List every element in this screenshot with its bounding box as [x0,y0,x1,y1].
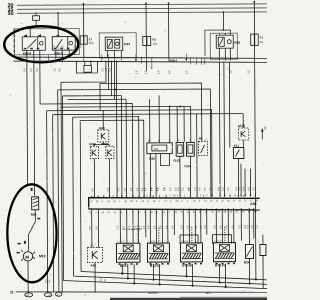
svg-text:A100: A100 [238,124,246,128]
svg-text:0.5: 0.5 [238,225,241,229]
svg-text:1.0: 1.0 [157,70,160,74]
svg-text:br: br [104,279,107,281]
component top pin numbers [92,138,208,176]
dashed boundary left of relays [13,29,15,55]
module A100 [238,128,248,140]
svg-text:0.5: 0.5 [255,224,258,228]
ignition coil B72-I [116,243,140,268]
drops bar to nest x101.5 [100,83,202,142]
wire H6 to Y104 [190,106,192,142]
svg-text:0.5: 0.5 [107,187,110,191]
svg-text:0.5: 0.5 [163,187,166,191]
relay K94 outer box [99,33,136,58]
svg-text:0.5: 0.5 [116,225,119,229]
svg-text:0.5: 0.5 [188,187,191,191]
left vertical wire x40.5 from nest [58,90,59,292]
wire R60 to switch [34,210,36,222]
right small box wire [262,234,264,244]
svg-text:0.5: 0.5 [23,68,26,72]
svg-text:0.5: 0.5 [227,187,230,191]
svg-text:1.0: 1.0 [247,69,250,73]
svg-text:0.5: 0.5 [169,187,172,191]
relay group outer box [14,29,79,55]
nest horizontal H10 [80,119,143,121]
svg-text:1.0: 1.0 [53,68,56,72]
terminal 30 arrow right edge [261,126,268,139]
nest horizontal H5 [40,102,132,105]
nest horizontal H6 with taps [61,105,191,108]
left drop relay K95-I pin2 [61,50,63,57]
svg-text:0.5: 0.5 [238,187,241,191]
sensor B24 [244,245,254,265]
svg-text:0.5: 0.5 [165,225,168,229]
svg-text:H: H [234,194,236,197]
relay K94 [105,37,130,51]
under-bar loop box [76,61,97,73]
svg-text:0.5: 0.5 [231,225,234,229]
long vertical x138 [138,116,140,197]
svg-text:0.5: 0.5 [200,225,203,229]
svg-text:0.5: 0.5 [108,67,111,71]
rotated wire labels above X28 [52,44,82,48]
shield dashes B72-IV [224,227,226,242]
connector bar X28-I bottom line [13,60,268,64]
svg-text:K11: K11 [234,144,240,148]
sensor A198 [90,146,98,158]
svg-text:1 4 3 2: 1 4 3 2 [148,241,156,243]
svg-text:R: R [149,195,151,198]
svg-text:0.5: 0.5 [89,225,92,229]
sensor A198 wire to ECU [93,159,95,198]
svg-text:1.0: 1.0 [36,68,39,72]
svg-text:0.5: 0.5 [144,187,147,191]
module A93 [87,247,102,262]
svg-text:0.5: 0.5 [222,187,225,191]
left drop relay K95-II pin1 [26,50,29,185]
svg-text:0.5: 0.5 [95,225,98,229]
bottom bus L2 [73,116,270,286]
sensor A18 bottom tee [94,142,103,146]
left vertical wire x64.5 from nest [63,95,270,290]
svg-text:R60: R60 [31,213,37,217]
ground bus 31 [15,290,270,293]
svg-text:0.5: 0.5 [251,224,254,228]
relay K46 outer box [205,30,231,56]
svg-text:0.5: 0.5 [30,68,33,72]
svg-text:0.5: 0.5 [209,187,212,191]
rotated wire labels below ECU [89,224,259,229]
svg-text:2.5: 2.5 [135,70,138,74]
ECU pin number row below bar [89,210,257,214]
relay K94 drops to bar [106,50,108,57]
A93 ground wire [94,262,96,292]
left drop relay K95-I pin1 [55,50,57,57]
svg-text:B24: B24 [244,260,250,264]
connector bar X28-I top line [13,56,268,60]
wire motor to ground [27,261,29,294]
left drop relay K95-II pin3 stub [39,50,41,104]
svg-text:0.5: 0.5 [186,225,189,229]
ECU pin letter row above bar [91,194,257,198]
svg-text:Y103: Y103 [173,159,180,163]
relay K46 top pins [218,33,220,35]
long vertical x120.8 [120,96,123,198]
sensor A18 [98,130,109,142]
svg-text:1.0: 1.0 [185,70,188,74]
bus 15 wire [17,8,268,9]
B24 wire to ECU [248,208,250,244]
svg-text:1 4 3 2: 1 4 3 2 [117,241,125,243]
sensor B400 wire to ECU [108,159,110,198]
relay K46 drops to bar [218,48,220,58]
fuse F8 [143,36,158,45]
X28 junction dots [135,59,187,61]
svg-text:A95: A95 [250,202,256,206]
coil pin numbers [90,241,222,248]
ECU connector bar A95 top line [89,197,260,209]
rotated wire labels below X28 [23,66,250,74]
ellipse highlight lower left [7,184,57,282]
drop bar long x116 [115,61,117,104]
tick rows and tiny labels [27,54,231,70]
valve Y103 [173,142,184,162]
ECU below-bar wire A93 pin2 [97,209,99,247]
wire F8 to X28 bar [145,46,147,58]
svg-text:S6: S6 [199,136,203,140]
svg-text:50: 50 [8,11,14,17]
bottom taps from coils [152,264,226,289]
svg-text:0.5: 0.5 [91,187,94,191]
svg-text:0.5: 0.5 [198,187,201,191]
left drop relay K95-I pin3 stub [68,50,70,57]
svg-text:EPC: EPC [206,291,212,295]
svg-text:0.5: 0.5 [219,225,222,229]
sensor B400 [106,146,114,158]
svg-text:A93: A93 [91,263,97,267]
relay K46 [216,35,240,48]
svg-text:1.5: 1.5 [79,44,82,48]
svg-text:1.0: 1.0 [124,187,127,191]
svg-text:0.5: 0.5 [157,187,160,191]
wire bus 30 to fuse F9 [253,2,255,34]
valve Y104 [146,60,250,197]
long vertical x125.5 [125,99,128,197]
svg-text:0.5: 0.5 [171,225,174,229]
svg-text:X28-I: X28-I [169,59,177,63]
svg-text:0.5: 0.5 [147,225,150,229]
coil bottom pin numbers [119,263,236,265]
shield dashes B72-I [123,228,141,230]
svg-text:B72-I: B72-I [120,264,128,268]
ECU connector bar A95 bottom line [89,208,260,211]
svg-text:0.5: 0.5 [175,187,178,191]
ignition coil B72-III [180,243,202,268]
svg-text:0.5: 0.5 [204,225,207,229]
wire connector to relay K95-II [30,20,36,37]
svg-text:0.5: 0.5 [204,187,207,191]
relay K95-II pin numbers [24,35,41,49]
svg-text:30: 30 [263,126,267,130]
svg-text:A18: A18 [99,126,105,130]
shield dashes B72-II [158,227,160,242]
svg-text:1.5: 1.5 [52,45,55,49]
scan artifact bottom edge [110,298,267,300]
switch S6 [198,141,207,155]
switch in ellipse [29,222,36,234]
svg-text:5A: 5A [260,40,264,44]
A100 to K11 wire [242,140,244,147]
svg-text:M: M [25,255,29,260]
right small box [260,244,266,255]
ignition coil B72-II [147,243,169,268]
svg-text:0.5: 0.5 [150,187,153,191]
svg-text:M: M [244,194,246,197]
svg-text:0.5: 0.5 [248,186,251,190]
ground labels [26,294,60,297]
wire H6 to Y103 [176,106,178,142]
svg-text:0.5: 0.5 [58,68,61,72]
long vertical x143 [143,120,145,197]
wire F9 down right side [255,46,256,280]
nest horizontal H8 [53,114,243,115]
X28 ticks [27,54,231,70]
bottom bus L1 [80,119,269,281]
drops bar to nest x108 [107,61,109,90]
relay K11 [233,147,244,158]
svg-text:1.5: 1.5 [61,45,64,49]
R60 top pin label [31,188,33,191]
svg-text:2.5: 2.5 [73,44,76,48]
svg-text:2.5: 2.5 [56,45,59,49]
long vertical x131.7 [131,103,134,197]
inline connector X above relay [33,16,40,21]
relay K95-I [52,37,75,56]
component B30 [147,143,173,161]
ellipse highlight around relays [4,26,78,62]
B30 bottom pins to ECU [149,154,151,198]
nest horizontal H7 [47,110,212,198]
fuse F9 [251,34,264,46]
svg-text:1.0: 1.0 [144,70,147,74]
wire from bus 50 to connector [35,12,37,15]
ignition coil B72-IV [213,243,235,268]
svg-text:K46: K46 [234,41,240,45]
svg-text:K94: K94 [124,42,130,46]
svg-text:0.5: 0.5 [159,225,162,229]
svg-text:0.5: 0.5 [153,225,156,229]
svg-text:0.5: 0.5 [217,187,220,191]
bus 30 wire [17,4,268,5]
ECU bar ticks top [92,195,244,198]
svg-text:sw: sw [48,279,51,282]
svg-text:1 4 3 2: 1 4 3 2 [181,241,189,243]
svg-text:4.0: 4.0 [168,70,171,74]
K11 bottom wire to ECU [237,159,239,197]
nest horizontal H2 [58,89,211,198]
loop wire above B72-IV [212,235,231,244]
bottom bus L3 [133,264,135,283]
svg-text:0.5: 0.5 [100,277,103,281]
ECU below-bar wire A93 pin1 [91,209,93,247]
svg-text:31: 31 [10,290,14,294]
coil B72-III wires to ECU [182,208,184,242]
resistor R60 [31,197,39,217]
svg-text:0.5: 0.5 [180,225,183,229]
motor M12 [21,250,46,261]
svg-text:B25: B25 [154,147,159,151]
left bottom rotated labels [45,277,107,282]
svg-text:1.0: 1.0 [130,187,133,191]
relay K95-II [22,34,45,55]
svg-text:1.0: 1.0 [229,70,232,74]
svg-text:N: N [255,194,257,197]
ground symbols under bus [25,292,62,297]
svg-text:M12: M12 [39,254,46,258]
svg-text:0.5: 0.5 [134,225,137,229]
drops bar to nest x111 [110,61,112,96]
wire bus 30 to fuse F8 [145,3,147,36]
svg-text:0.5: 0.5 [252,186,255,190]
wire H6 to B30 [169,107,171,143]
B30 top pins [149,99,151,143]
nest horizontal H3 [63,95,122,97]
nest horizontal H9 [73,116,139,118]
coil B72-II wires to ECU [149,209,151,243]
wire bus 15 to relay K95-I [57,13,59,37]
svg-text:G: G [112,195,114,198]
nest horizontal H4 [68,98,126,100]
A100 top wire [242,114,244,128]
shield dashes B72-III [191,227,193,242]
svg-text:0.5: 0.5 [128,225,131,229]
B24 ground [248,259,250,284]
svg-text:0.5: 0.5 [225,225,228,229]
coil B72-I wires to ECU [119,209,121,243]
fuse F7 [80,36,94,45]
svg-text:0.5: 0.5 [143,225,146,229]
drops bar to nest x114 [113,61,115,100]
long vertical x116 to coil field [116,104,119,198]
rotated wire labels above ECU [91,186,255,191]
nest horizontal H1 [61,61,107,292]
svg-text:0.5: 0.5 [195,225,198,229]
svg-text:15A: 15A [152,42,157,46]
svg-text:1.0: 1.0 [117,187,120,191]
wire bus 30 drop to X28 bar [168,3,170,58]
right columns from K46 [218,62,221,197]
svg-text:0.5: 0.5 [122,225,125,229]
left drop relay K95-II pin2 to R60 [33,50,36,195]
wire switch to motor [27,234,29,251]
svg-text:F1: F1 [260,35,264,39]
wire F7 to X28 bar [83,44,85,57]
bus 50 wire [17,12,268,13]
svg-text:1 4 3 2: 1 4 3 2 [214,241,222,243]
loop wire above B72-III [180,235,198,244]
switch pin label [24,241,26,244]
svg-text:0.5: 0.5 [213,225,216,229]
coil B72-IV wires to ECU [215,208,217,242]
relay K95-I pin numbers [54,35,70,49]
sensor A18 top wire [102,110,104,129]
svg-text:0.5: 0.5 [242,187,245,191]
svg-text:0.5: 0.5 [181,187,184,191]
svg-text:C: C [206,194,208,197]
wire bus 30 to fuse F7 [83,4,85,36]
svg-text:0.5: 0.5 [194,187,197,191]
ECU pin number row inside bar [90,199,259,203]
svg-text:300904: 300904 [148,291,158,295]
svg-text:1.0: 1.0 [136,187,139,191]
